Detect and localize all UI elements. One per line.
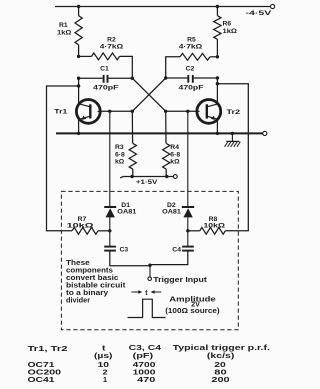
capacitor C3 — [109, 231, 111, 246]
wire Tr1 collector — [78, 78, 80, 103]
node C1 left junction — [77, 77, 80, 80]
svg-text:OC41: OC41 — [28, 376, 55, 384]
resistor R1 — [78, 7, 80, 16]
wire Tr2 collector — [216, 78, 218, 103]
wire 0V emitter rail — [56, 132, 263, 134]
svg-text:Tr1, Tr2: Tr1, Tr2 — [28, 345, 68, 354]
wire R7 feedback to Tr1 collector — [47, 86, 79, 231]
node D2/R8/C4 junction — [186, 229, 189, 232]
svg-text:4·7kΩ: 4·7kΩ — [100, 42, 123, 50]
wire Tr2 base — [166, 110, 197, 112]
svg-text:C4: C4 — [172, 246, 181, 253]
node Tr1 base/R3 junction — [131, 110, 134, 113]
resistor R7 — [72, 227, 98, 234]
node Tr2 collector/R8 junction — [216, 82, 219, 85]
node D1/R7/C3 junction — [108, 229, 111, 232]
wire supply rail -4.5V — [55, 6, 271, 8]
terminal -4.5V supply — [271, 4, 275, 8]
node rail/R1 junction — [77, 5, 80, 8]
svg-text:470pF: 470pF — [93, 83, 119, 91]
trigger pulse waveform — [128, 299, 166, 317]
wire Tr1 base — [100, 110, 132, 112]
svg-text:470pF: 470pF — [179, 83, 204, 91]
diode D1 — [109, 111, 111, 206]
wire Tr2 emitter — [216, 120, 218, 134]
svg-text:10kΩ: 10kΩ — [203, 222, 224, 230]
svg-text:C2: C2 — [186, 65, 195, 72]
node Tr2 emitter/rail junction — [216, 132, 219, 135]
capacitor C2 — [166, 77, 188, 79]
svg-text:+1·5V: +1·5V — [136, 177, 157, 185]
svg-text:R4: R4 — [170, 144, 179, 151]
capacitor C4 — [187, 231, 189, 246]
terminal 0V rail — [263, 131, 267, 135]
svg-text:(kc/s): (kc/s) — [207, 351, 234, 359]
svg-text:OA81: OA81 — [162, 209, 181, 216]
svg-text:R3: R3 — [115, 144, 124, 151]
svg-text:(100Ω source): (100Ω source) — [165, 307, 220, 315]
resistor R2 — [79, 55, 92, 57]
transistor Tr1 — [76, 100, 100, 124]
svg-text:divider: divider — [66, 295, 90, 304]
svg-text:1kΩ: 1kΩ — [223, 27, 238, 35]
node R3/+1.5V junction — [130, 175, 133, 178]
wire trigger input lead — [149, 265, 151, 277]
svg-text:10kΩ: 10kΩ — [67, 222, 94, 229]
svg-text:470: 470 — [137, 376, 155, 384]
svg-text:OA81: OA81 — [117, 209, 136, 216]
svg-text:C1: C1 — [100, 65, 109, 72]
wire Tr1 emitter — [78, 120, 80, 134]
svg-text:1: 1 — [103, 375, 107, 384]
resistor R3 — [131, 111, 133, 143]
svg-text:4·7kΩ: 4·7kΩ — [179, 42, 202, 50]
wire R8 feedback to Tr2 collector — [217, 84, 248, 231]
svg-text:C3: C3 — [120, 246, 129, 253]
transistor Tr2 — [197, 100, 221, 124]
resistor R6 — [216, 7, 218, 16]
node R4/+1.5V junction — [165, 175, 168, 178]
svg-text:1kΩ: 1kΩ — [57, 29, 72, 37]
resistor R5 — [210, 56, 217, 58]
node Tr1 emitter/rail junction — [77, 132, 80, 135]
node C2 right junction — [216, 76, 219, 79]
dashed enclosure box — [61, 191, 238, 329]
svg-text:kΩ: kΩ — [115, 159, 125, 166]
svg-text:t: t — [145, 290, 148, 297]
wire +1.5V bias line — [120, 177, 173, 178]
svg-text:(pF): (pF) — [133, 351, 154, 359]
capacitor C1 — [79, 77, 103, 79]
node ground/rail junction — [231, 132, 234, 135]
svg-text:Trigger Input: Trigger Input — [153, 276, 207, 284]
ground — [231, 133, 233, 141]
terminal Trigger Input — [148, 277, 152, 281]
annotation pulse width arrows — [131, 291, 140, 293]
node R2/R1 junction — [77, 55, 80, 58]
node R2-C1/coupling junction — [131, 77, 134, 80]
node rail/R6 junction — [216, 5, 219, 8]
node Tr1 collector/R7 junction — [77, 84, 80, 87]
node Tr2 base/R4 junction — [164, 110, 167, 113]
diode D2 — [187, 111, 189, 206]
svg-text:6·8: 6·8 — [115, 151, 125, 158]
svg-text:kΩ: kΩ — [170, 159, 180, 166]
node trigger junction — [148, 264, 151, 267]
svg-text:-4·5V: -4·5V — [246, 9, 272, 17]
node R5/R6 junction — [216, 55, 219, 58]
node Tr1 base/D1 junction — [108, 110, 111, 113]
svg-text:Tr1: Tr1 — [54, 107, 68, 115]
resistor R4 — [165, 111, 167, 143]
wire cross-coupling C1 to Tr2 base — [132, 78, 165, 111]
svg-text:6·8: 6·8 — [170, 151, 180, 158]
svg-text:200: 200 — [211, 376, 229, 384]
node Tr2 base/D2 junction — [186, 110, 189, 113]
svg-text:(µs): (µs) — [94, 351, 112, 359]
wire cross-coupling C2 to Tr1 base — [132, 78, 165, 111]
resistor R8 — [200, 227, 226, 234]
node C2/coupling junction — [164, 76, 167, 79]
svg-text:Tr2: Tr2 — [226, 108, 240, 116]
terminal +1.5V — [173, 175, 177, 179]
